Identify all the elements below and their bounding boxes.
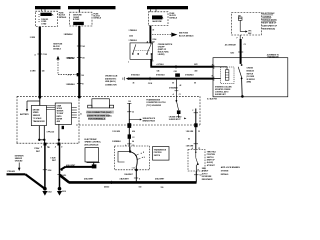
svg-text:DETAILS: DETAILS — [94, 17, 102, 20]
svg-text:8 TAN BLK: 8 TAN BLK — [131, 74, 140, 77]
svg-text:SYSTEM: SYSTEM — [221, 171, 229, 173]
feed bus B+ — [35, 6, 61, 10]
wire GA vertical to ground — [34, 143, 63, 189]
wire resume to bus — [124, 166, 140, 182]
TCC solenoid label — [146, 99, 166, 107]
svg-text:HOT AT ALL TIMES: HOT AT ALL TIMES — [39, 7, 58, 10]
svg-text:POSITION: POSITION — [207, 154, 216, 156]
ground bus wire — [60, 175, 197, 189]
svg-text:S 2 BLK PNK: S 2 BLK PNK — [207, 98, 218, 100]
ESC module label — [85, 139, 102, 146]
svg-text:TPS: TPS — [248, 31, 251, 33]
svg-text:4 BLK/WHT: 4 BLK/WHT — [120, 177, 130, 180]
svg-text:LINK (ALDL): LINK (ALDL) — [105, 80, 116, 83]
svg-text:METER: METER — [57, 118, 63, 120]
svg-text:CRUISE: CRUISE — [247, 68, 254, 70]
svg-text:BLOCK DETAILS: BLOCK DETAILS — [179, 34, 194, 37]
svg-text:1 C2: 1 C2 — [132, 167, 135, 169]
throttle switch label — [202, 151, 217, 180]
svg-text:RESISTANCE): RESISTANCE) — [262, 28, 275, 31]
svg-text:LEVER): LEVER) — [158, 54, 165, 56]
transmission position box — [153, 147, 170, 161]
svg-text:GAGES 10A: GAGES 10A — [153, 16, 164, 19]
svg-text:(ESC) MODULE: (ESC) MODULE — [85, 144, 100, 146]
svg-text:39: 39 — [152, 29, 154, 31]
fuse block label 1 — [59, 12, 67, 18]
wires linking boxes — [46, 106, 76, 118]
svg-text:SWITCH: SWITCH — [207, 157, 214, 159]
wire H1 horizontal (cruise sw to servo A) — [150, 59, 213, 73]
wire W3 vertical (GAGES feed) — [129, 26, 195, 44]
svg-text:◄─2: ◄─2 — [67, 74, 71, 76]
svg-text:GROUND: GROUND — [15, 160, 23, 162]
speed transducer box — [31, 106, 46, 126]
svg-text:W/ SERVO: W/ SERVO — [247, 79, 256, 81]
svg-text:1 TAN/: 1 TAN/ — [34, 147, 40, 150]
svg-text:SLIDER UNIT: SLIDER UNIT — [215, 94, 227, 96]
svg-text:C2: C2 — [152, 41, 154, 43]
fusible link F1 box — [35, 9, 57, 26]
anti-lock note — [221, 166, 241, 176]
cruise engage switch inside servo — [238, 64, 244, 98]
feed bus IGN — [68, 6, 116, 10]
svg-text:(PART OF: (PART OF — [207, 159, 215, 162]
svg-text:C1: C1 — [198, 148, 200, 150]
svg-text:A/C ORN BAT: A/C ORN BAT — [225, 43, 237, 46]
resistor R inside ECM — [238, 14, 242, 20]
wire TCC drop — [175, 79, 182, 101]
fuse GEN box — [70, 9, 92, 26]
svg-text:GEN 10A: GEN 10A — [74, 22, 83, 25]
svg-text:5 TAN/BLK: 5 TAN/BLK — [185, 74, 194, 77]
wire W5 vertical (to resume switch) — [112, 101, 156, 147]
svg-text:CONVERTER CLUTCH: CONVERTER CLUTCH — [146, 102, 166, 104]
fuse block label 2 — [94, 13, 102, 19]
svg-text:1 BLK/WHT: 1 BLK/WHT — [124, 174, 133, 176]
svg-text:AT RIGHT: AT RIGHT — [207, 164, 216, 167]
wire H2 horizontal (ALDL to servo B) — [123, 73, 214, 89]
wire left ground feed — [7, 170, 45, 189]
svg-text:(VIEW FROM WIRE SIDE): (VIEW FROM WIRE SIDE) — [87, 115, 112, 117]
ALDL connector label — [105, 75, 118, 86]
fuse block label 3 — [170, 13, 178, 19]
svg-text:1 DK GRN: 1 DK GRN — [112, 131, 120, 133]
instrument cluster dashed box — [17, 96, 201, 143]
svg-text:SLIDER INPUT: SLIDER INPUT — [169, 119, 182, 121]
svg-text:CRUISE CLUB: CRUISE CLUB — [105, 75, 118, 77]
svg-text:SENSOR: SENSOR — [33, 115, 41, 117]
svg-text:BRAKES PAGE: BRAKES PAGE — [143, 119, 156, 122]
svg-text:5 BRN/BLK: 5 BRN/BLK — [112, 141, 121, 143]
svg-text:40 PCT: 40 PCT — [202, 172, 209, 175]
svg-text:F: F — [237, 37, 238, 39]
wire from speedometer down — [47, 124, 64, 143]
wire W1 vertical (fusible link feed) — [30, 27, 47, 97]
svg-text:1 DK GRN: 1 DK GRN — [186, 131, 194, 133]
wire W4 (ECM to servo) — [225, 35, 246, 64]
svg-text:ANTI-LOCK BRAKES: ANTI-LOCK BRAKES — [221, 166, 241, 169]
svg-text:AT WOT: AT WOT — [202, 170, 209, 173]
servo labels — [207, 68, 256, 101]
svg-text:(TCC) SOLENOID: (TCC) SOLENOID — [146, 105, 161, 107]
svg-text:DETAILS: DETAILS — [53, 47, 61, 50]
svg-text:3 PNK/BLK: 3 PNK/BLK — [129, 30, 138, 32]
svg-text:SPARK CONTROL: SPARK CONTROL — [85, 141, 102, 144]
svg-text:DETAILS: DETAILS — [59, 16, 67, 19]
svg-text:ENGAGE: ENGAGE — [247, 70, 255, 73]
svg-text:SENSOR: SENSOR — [57, 111, 65, 113]
feed bus GAUGES — [147, 6, 188, 10]
wire W6 vertical (to throttle switch) — [186, 109, 201, 150]
svg-text:SPEED: SPEED — [57, 108, 63, 110]
cruise servo box — [213, 53, 288, 96]
svg-text:KICKDOWN: KICKDOWN — [202, 176, 212, 178]
svg-text:1 DK GRN: 1 DK GRN — [186, 146, 194, 148]
svg-text:G110: G110 — [62, 191, 66, 193]
node junction W2 — [78, 96, 81, 99]
svg-text:7.5 SCALE: 7.5 SCALE — [33, 117, 42, 120]
cruise on/off switch S1 box — [128, 40, 155, 63]
svg-text:ELECTRONIC: ELECTRONIC — [85, 139, 98, 141]
arrow to wire W6 — [184, 118, 186, 120]
svg-text:SWITCH: SWITCH — [154, 155, 161, 157]
svg-text:RIGHT SIDE OF: RIGHT SIDE OF — [262, 23, 277, 25]
node junction W1 — [38, 96, 41, 99]
fuse GAGES box — [148, 9, 168, 25]
svg-text:HOT IN RUN, BULB TEST OR START: HOT IN RUN, BULB TEST OR START — [74, 7, 109, 10]
wire to battery annotation — [20, 97, 40, 116]
svg-text:3 BRN/BLK: 3 BRN/BLK — [64, 34, 74, 36]
svg-text:HOT IN RUN OR START: HOT IN RUN OR START — [156, 7, 179, 10]
svg-text:B FUSE: B FUSE — [73, 19, 80, 21]
svg-text:8 TAN BLK: 8 TAN BLK — [156, 74, 165, 77]
arrow annotation to W2 — [56, 56, 84, 77]
ground G102 — [42, 187, 51, 196]
wire W2 vertical (GEN fuse feed) — [64, 26, 86, 97]
wires from transducer down — [38, 126, 45, 144]
svg-text:120: 120 — [128, 101, 131, 103]
svg-text:CONTROL AUTO: CONTROL AUTO — [215, 91, 229, 94]
wire ESC to ground bus — [61, 164, 93, 172]
connector C100 caption — [80, 111, 113, 121]
svg-text:DETAILS: DETAILS — [170, 16, 178, 19]
svg-text:2 RED 40: 2 RED 40 — [67, 57, 74, 60]
svg-text:DASH (PART OF: DASH (PART OF — [262, 25, 278, 28]
cruise resume switch dashed box — [114, 146, 149, 170]
svg-text:3 TAN 450: 3 TAN 450 — [7, 170, 15, 173]
svg-text:C2: C2 — [132, 111, 134, 113]
svg-text:150: 150 — [139, 187, 142, 189]
svg-text:FUSIBLE LNK: FUSIBLE LNK — [41, 14, 54, 16]
svg-text:100: 100 — [81, 75, 84, 77]
svg-text:C2: C2 — [199, 175, 201, 177]
svg-text:S: S — [139, 179, 140, 181]
svg-text:SWITCH: SWITCH — [247, 73, 254, 75]
svg-text:4 BLK/WHT: 4 BLK/WHT — [84, 177, 94, 180]
cruise switch label — [152, 44, 173, 62]
svg-text:G102: G102 — [47, 192, 51, 194]
svg-text:4 BLK/WHT: 4 BLK/WHT — [66, 164, 76, 167]
svg-text:DIAGNOSTIC: DIAGNOSTIC — [105, 77, 117, 80]
speedometer box — [55, 103, 71, 124]
svg-text:145: 145 — [157, 70, 160, 73]
ECM label — [262, 13, 278, 31]
svg-text:3 PNK/BLK: 3 PNK/BLK — [129, 40, 138, 42]
svg-text:2 ORN: 2 ORN — [30, 37, 36, 39]
svg-text:S: S — [144, 157, 145, 159]
svg-text:4 LT BLU: 4 LT BLU — [157, 63, 165, 66]
svg-text:(CLOSED: (CLOSED — [247, 76, 255, 78]
svg-text:BATTERY: BATTERY — [20, 113, 29, 116]
svg-text:4L60-E): 4L60-E) — [207, 161, 214, 164]
svg-text:98: 98 — [172, 82, 174, 84]
svg-text:C2: C2 — [132, 137, 134, 139]
svg-text:DRIVEN: DRIVEN — [33, 109, 40, 111]
ECM dashed box — [232, 12, 262, 35]
svg-text:C1: C1 — [179, 94, 181, 96]
svg-text:4 BLK/WHT: 4 BLK/WHT — [155, 177, 165, 180]
svg-text:140: 140 — [42, 69, 45, 72]
ESC module box — [85, 148, 100, 169]
svg-text:ARM): ARM) — [247, 81, 252, 84]
svg-text:C2: C2 — [198, 131, 200, 133]
svg-text:450 40: 450 40 — [104, 186, 109, 189]
svg-text:C100: C100 — [43, 54, 47, 56]
svg-text:FOR TERMINALS: FOR TERMINALS — [88, 118, 105, 121]
svg-text:CONNECTOR: CONNECTOR — [105, 84, 117, 86]
svg-text:THROTTLE: THROTTLE — [207, 151, 217, 153]
exterior ground note — [15, 155, 24, 162]
svg-text:141: 141 — [82, 45, 85, 48]
wire GB vertical to ground — [50, 143, 66, 188]
svg-text:T: T — [128, 62, 129, 64]
svg-text:400: 400 — [195, 70, 198, 73]
svg-text:98: 98 — [194, 82, 196, 84]
pin F pin B labels — [237, 37, 244, 39]
svg-text:C2 98: C2 98 — [148, 83, 152, 85]
connector C100 face — [88, 99, 114, 108]
svg-text:38: 38 — [133, 82, 135, 84]
arrow exterior ground — [18, 163, 21, 172]
svg-text:POSITION: POSITION — [154, 152, 162, 154]
svg-text:150: 150 — [161, 187, 164, 189]
resistor sub-box inside servo — [213, 65, 234, 84]
svg-text:TRANSDUCER: TRANSDUCER — [33, 120, 46, 123]
svg-text:1 RED: 1 RED — [41, 24, 47, 26]
svg-text:RESISTANCE: RESISTANCE — [202, 178, 214, 181]
see fuse block note (left) — [53, 43, 63, 50]
svg-text:S210: S210 — [230, 53, 234, 55]
svg-text:4 ORN: 4 ORN — [30, 69, 36, 72]
svg-text:1 BRN/BLK: 1 BRN/BLK — [66, 84, 76, 86]
TCC switch — [173, 93, 181, 118]
svg-text:C100 CONNECTOR (BLK): C100 CONNECTOR (BLK) — [87, 112, 112, 114]
svg-text:TRANSMISSION: TRANSMISSION — [146, 99, 160, 102]
svg-text:SPEED: SPEED — [33, 112, 40, 114]
slider input label — [169, 117, 182, 122]
svg-text:C42: C42 — [174, 70, 177, 73]
svg-text:5 TAN/BLK: 5 TAN/BLK — [169, 86, 178, 89]
wire throttle to bus — [194, 171, 202, 183]
svg-text:DETAILS: DETAILS — [221, 173, 229, 176]
ground G110 — [57, 187, 66, 196]
wire ECM internal — [240, 20, 252, 35]
svg-text:C2: C2 — [244, 44, 246, 46]
throttle position switch dashed box — [188, 147, 205, 172]
